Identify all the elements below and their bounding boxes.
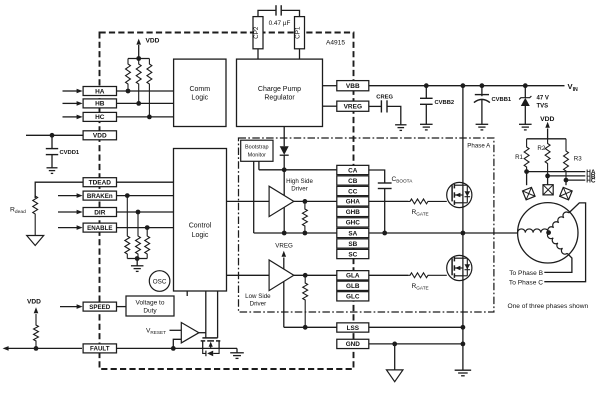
ground fault fet: [236, 348, 238, 352]
resistor HC pullup: [147, 59, 152, 117]
pin BRAKEn: [83, 191, 116, 200]
wire VDD stub: [26, 134, 83, 136]
svg-text:One of three phases shown: One of three phases shown: [508, 303, 589, 310]
resistor R2: [545, 139, 550, 176]
pin HB: [83, 99, 116, 108]
resistor Rdead: [33, 196, 38, 236]
svg-text:GHB: GHB: [346, 209, 361, 216]
wire HC input arrow: [63, 116, 78, 118]
svg-text:R3: R3: [574, 156, 582, 163]
svg-text:VDD: VDD: [540, 116, 554, 123]
resistor low side gate pulldown: [303, 275, 308, 327]
pin ENABLE: [83, 223, 116, 232]
svg-text:CVBB2: CVBB2: [435, 100, 455, 106]
pin LSS: [337, 323, 369, 332]
pin SB: [337, 239, 369, 248]
motor circle M1: [518, 203, 578, 263]
svg-text:SB: SB: [348, 241, 357, 248]
resistor HB pullup: [136, 59, 141, 104]
wire hall bias bus: [527, 138, 566, 140]
wire VREG arrow low side: [283, 258, 285, 270]
svg-text:OSC: OSC: [153, 278, 167, 285]
svg-text:DIR: DIR: [94, 209, 106, 216]
svg-text:VDD: VDD: [27, 299, 41, 306]
wire to phase C: [544, 203, 585, 282]
pin VBB: [337, 81, 369, 91]
pin CP2: [253, 17, 263, 49]
svg-text:TDEAD: TDEAD: [89, 180, 112, 187]
svg-text:0.47 µF: 0.47 µF: [269, 20, 291, 27]
svg-text:Regulator: Regulator: [264, 95, 295, 102]
wire VBB rail to VIN: [369, 85, 565, 87]
wire control logic to fault fet right: [217, 291, 219, 338]
wire charge pump to VBB: [323, 85, 337, 87]
wire CP2 to charge pump: [257, 49, 259, 59]
wire SA rail: [254, 232, 337, 234]
resistor RGATE low: [408, 273, 447, 278]
transistor Q1 high side: [447, 182, 472, 207]
svg-text:Driver: Driver: [291, 186, 308, 193]
wire pulldown bus: [127, 258, 147, 260]
ground arrow Rdead: [27, 236, 44, 246]
capacitor 0.47 uF: [275, 5, 277, 15]
wire FAULT line to pulldown fet: [117, 347, 238, 349]
svg-text:LSS: LSS: [347, 325, 360, 332]
resistor R3: [564, 139, 569, 180]
svg-text:CP2: CP2: [253, 26, 260, 39]
pin GND: [337, 339, 369, 348]
svg-text:Low Side: Low Side: [245, 293, 271, 300]
resistor high side gate pulldown: [302, 201, 307, 233]
svg-text:CC: CC: [348, 188, 358, 195]
wire GHA to Rgate: [369, 200, 408, 202]
svg-text:To Phase B: To Phase B: [509, 270, 543, 277]
svg-text:Comm: Comm: [189, 86, 210, 93]
capacitor CBOOTA: [369, 170, 385, 183]
svg-text:HC: HC: [586, 178, 596, 185]
hall sensor B: [547, 176, 549, 185]
wire VRESET input: [170, 329, 182, 331]
wire to phase B: [544, 253, 572, 272]
wire CP1 to charge pump: [299, 49, 301, 59]
op-amp high side driver U-hs: [269, 186, 294, 216]
block Comm Logic U-commlogic: [174, 59, 226, 126]
svg-text:SA: SA: [348, 230, 357, 237]
resistor ENABLE pulldown: [145, 228, 150, 259]
wire bootstrap monitor to SA: [253, 161, 255, 233]
winding phase B: [547, 233, 567, 255]
svg-text:Duty: Duty: [143, 307, 157, 314]
pin SPEED: [83, 302, 116, 311]
wire HC hall line: [566, 179, 585, 181]
ground pulldowns: [131, 265, 144, 267]
A4915 chip boundary (dashed): [100, 33, 354, 370]
svg-text:FAULT: FAULT: [90, 346, 110, 353]
diode Q-fault body: [203, 348, 219, 353]
node pullup bus: [128, 58, 149, 60]
wire control logic to high side driver: [227, 200, 270, 202]
svg-text:Monitor: Monitor: [248, 152, 267, 158]
wire GND rail: [369, 343, 463, 345]
wire HA input arrow: [63, 90, 78, 92]
wire CA line: [259, 169, 337, 171]
svg-text:GHA: GHA: [346, 199, 361, 206]
pin TDEAD: [83, 178, 116, 187]
capacitor CVBB1 polarized: [481, 86, 483, 97]
svg-text:A4915: A4915: [326, 40, 345, 47]
wire control logic to fault fet left: [205, 291, 207, 338]
svg-text:ENABLE: ENABLE: [87, 225, 112, 232]
svg-text:CP1: CP1: [295, 26, 302, 39]
resistor RGATE high: [408, 199, 447, 204]
wire high side output to GHA: [294, 200, 337, 202]
svg-text:HA: HA: [95, 88, 105, 95]
pin CB: [337, 176, 369, 185]
pin GHC: [337, 218, 369, 227]
transistor Q-fault leads: [202, 341, 204, 349]
resistor DIR pulldown: [136, 212, 141, 259]
pin GLC: [337, 292, 369, 301]
svg-text:GND: GND: [346, 341, 361, 348]
VDD arrow for hall pullups: [138, 45, 140, 59]
pin FAULT: [83, 344, 116, 353]
svg-text:High Side: High Side: [286, 178, 313, 185]
wire DIR input arrow: [58, 211, 77, 213]
block Voltage to Duty: [126, 296, 174, 316]
op-amp low side driver U-ls: [269, 260, 294, 291]
svg-text:47 V: 47 V: [537, 96, 549, 102]
transistor Q-fault channel: [201, 340, 206, 342]
pin VDD: [83, 131, 116, 140]
wire DIR to control logic: [117, 211, 174, 213]
diode TVS 47V: [524, 86, 526, 98]
resistor R1: [524, 139, 529, 172]
block Bootstrap Monitor: [241, 140, 273, 161]
svg-text:VREG: VREG: [344, 104, 362, 111]
wire control logic to low side driver: [227, 274, 270, 276]
wire TDEAD to control logic: [117, 181, 174, 183]
transistor Q2 low side: [447, 255, 472, 280]
svg-text:SC: SC: [348, 251, 357, 258]
ground CVBB2: [420, 123, 433, 125]
hall sensor A: [526, 172, 528, 186]
ground CVBB1: [476, 123, 489, 125]
svg-text:Logic: Logic: [191, 95, 208, 102]
svg-text:R1: R1: [515, 154, 523, 161]
pin GHA: [337, 197, 369, 206]
block Charge Pump Regulator: [237, 59, 323, 126]
wire GLA to Rgate: [369, 274, 408, 276]
svg-text:VREG: VREG: [275, 243, 293, 250]
wire low side output to GLA: [294, 274, 337, 276]
svg-text:R2: R2: [537, 145, 545, 152]
svg-text:Phase A: Phase A: [467, 143, 491, 150]
capacitor CVBB2: [425, 86, 427, 99]
pin HA: [83, 87, 116, 96]
svg-text:GLC: GLC: [346, 294, 360, 301]
wire VDD arrow hall bias: [547, 129, 549, 139]
wire comparator output to gate: [199, 332, 206, 334]
wire HA hall line: [527, 171, 586, 173]
wire ENABLE input arrow: [58, 227, 77, 229]
pin HC: [83, 112, 116, 121]
ground GND arrow: [394, 344, 396, 370]
wire SPEED to voltage-to-duty: [117, 306, 127, 308]
pin CA: [337, 165, 369, 174]
svg-text:GLA: GLA: [346, 273, 360, 280]
svg-text:BRAKEn: BRAKEn: [87, 193, 113, 200]
pin DIR: [83, 208, 116, 217]
wire HB input arrow: [63, 102, 78, 104]
capacitor CREG: [369, 105, 382, 107]
wire BRAKEn to control logic: [117, 195, 174, 197]
wire VBB drain rail: [462, 86, 464, 371]
svg-text:CA: CA: [348, 167, 358, 174]
node motor star point: [546, 230, 551, 235]
wire FAULT line left arrow: [8, 347, 83, 349]
svg-text:Bootstrap: Bootstrap: [245, 145, 269, 151]
wire charge pump to bootstrap diode: [283, 127, 285, 147]
wire BRAKEn input arrow: [58, 195, 77, 197]
diode bootstrap D1: [280, 146, 289, 155]
ground CREG: [395, 124, 406, 126]
wire HB hall line: [548, 175, 586, 177]
wire bootstrap monitor to CA: [258, 161, 260, 170]
wire comparator minus input: [173, 339, 181, 348]
wire HC to comm logic: [117, 116, 174, 118]
wire pump cap to CP1: [281, 10, 299, 16]
pin VREG: [337, 101, 369, 111]
svg-text:CVDD1: CVDD1: [60, 150, 80, 156]
resistor BRAKEn pulldown: [125, 196, 130, 259]
svg-text:Charge Pump: Charge Pump: [258, 86, 301, 93]
wire LSS rail: [284, 326, 337, 328]
svg-text:VDD: VDD: [93, 133, 107, 140]
wire voltage-to-duty to control logic: [186, 291, 188, 296]
svg-text:HB: HB: [95, 101, 105, 108]
wire SPEED input arrow: [60, 306, 77, 308]
wire CP2 to pump cap: [258, 10, 276, 16]
wire ENABLE to control logic: [117, 227, 174, 229]
ground CVDD1: [47, 167, 58, 169]
svg-text:Voltage to: Voltage to: [136, 299, 165, 306]
svg-text:VDD: VDD: [146, 38, 160, 45]
pin GLA: [337, 271, 369, 280]
wire HB to comm logic: [117, 102, 174, 104]
pin GLB: [337, 281, 369, 290]
svg-text:TVS: TVS: [537, 104, 549, 110]
Phase A boundary (dash-dot): [239, 138, 494, 312]
svg-text:HC: HC: [95, 114, 105, 121]
resistor FAULT pullup with VDD arrow: [34, 314, 39, 348]
resistor HA pullup: [126, 59, 131, 92]
winding phase C: [548, 212, 569, 233]
svg-text:VBB: VBB: [346, 83, 360, 90]
svg-text:SPEED: SPEED: [89, 304, 111, 311]
wire low side power leg: [283, 281, 285, 327]
transistor Q-fault gate bar: [202, 337, 217, 339]
svg-text:GHC: GHC: [346, 220, 361, 227]
winding phase A: [518, 229, 549, 233]
capacitor CVDD1: [51, 135, 53, 148]
svg-text:Driver: Driver: [250, 301, 267, 308]
pin SA: [337, 228, 369, 237]
svg-text:CREG: CREG: [376, 94, 393, 100]
pin SC: [337, 249, 369, 258]
pin CC: [337, 186, 369, 195]
svg-text:To Phase C: To Phase C: [509, 279, 543, 286]
block Control Logic: [174, 149, 227, 292]
svg-text:CB: CB: [348, 178, 358, 185]
svg-text:CVBB1: CVBB1: [492, 97, 512, 103]
wire high side power leg: [283, 170, 285, 233]
comparator VRESET U-cmp: [181, 323, 199, 343]
svg-text:GLB: GLB: [346, 283, 360, 290]
pin CP1: [295, 17, 305, 49]
svg-text:Logic: Logic: [192, 232, 209, 239]
svg-text:Control: Control: [189, 223, 212, 230]
wire TDEAD to Rdead: [35, 182, 83, 198]
hall sensor C: [565, 180, 567, 185]
wire HA to comm logic: [117, 90, 174, 92]
wire charge pump to VREG: [323, 105, 337, 107]
oscillator OSC: [149, 271, 170, 292]
ground power stage: [455, 369, 472, 371]
ground TVS: [519, 123, 532, 125]
pin GHB: [337, 207, 369, 216]
